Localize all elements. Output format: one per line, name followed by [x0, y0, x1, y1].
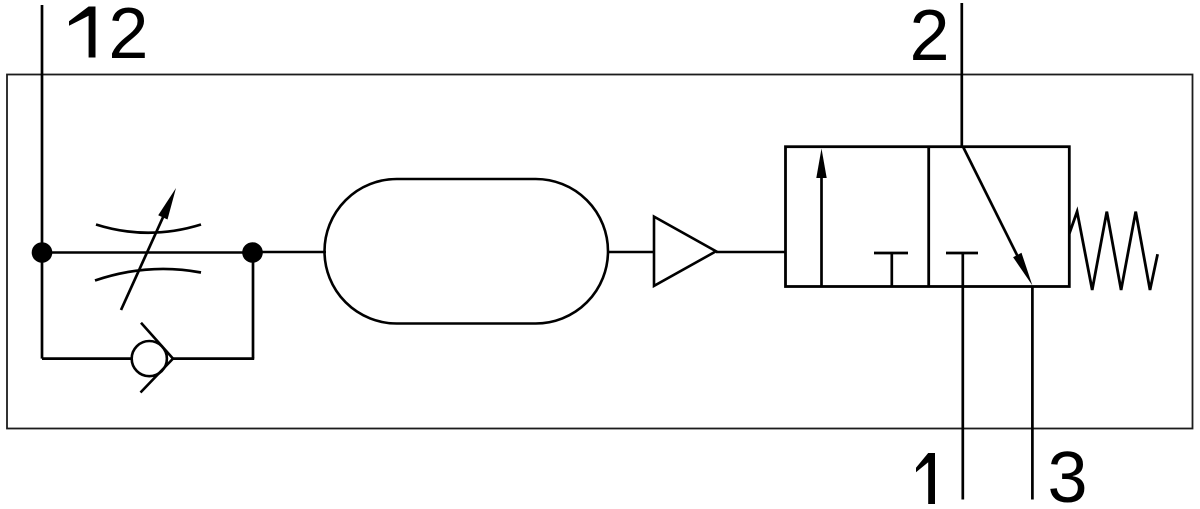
bypass right leg wire — [252, 253, 255, 359]
flow control valve (adjustable throttle) upper arc — [96, 225, 201, 233]
valve right cell diagonal flow arrow shaft — [963, 148, 1020, 262]
flow control valve adjustment arrow shaft — [121, 215, 164, 310]
amplifier nozzle U1 — [654, 217, 716, 286]
bypass bottom right wire — [172, 357, 254, 360]
port 2 line — [960, 3, 963, 147]
valve left cell blocked port T — [874, 253, 908, 287]
port 1 line — [961, 253, 964, 500]
wire node B to reservoir — [253, 251, 326, 254]
wire reservoir to amplifier — [608, 251, 655, 254]
svg-text:2: 2 — [108, 0, 148, 74]
valve body (3/2 way valve) — [786, 147, 1070, 287]
label 1 — [916, 453, 935, 504]
valve left cell flow arrow shaft — [820, 172, 823, 287]
reservoir (air accumulator) — [325, 179, 609, 324]
wire amplifier to valve — [716, 251, 786, 254]
node A junction dot — [32, 242, 53, 263]
svg-text:3: 3 — [1048, 438, 1088, 509]
return spring — [1069, 212, 1157, 290]
valve position divider — [927, 147, 930, 287]
valve right cell blocked port T bar — [946, 252, 978, 255]
check valve ball — [132, 341, 167, 376]
svg-text:2: 2 — [910, 0, 950, 76]
enclosure border — [7, 75, 1193, 429]
port 3 line — [1031, 286, 1034, 500]
node B junction dot — [242, 242, 263, 263]
bypass bottom left wire — [42, 357, 133, 360]
label 12 digit 1 — [69, 7, 96, 58]
check valve seat — [141, 323, 174, 393]
flow control valve adjustment arrowhead — [158, 188, 176, 220]
port 12 pilot line — [41, 5, 44, 253]
valve right cell diagonal flow arrowhead — [1013, 253, 1032, 286]
wire node A to node B — [42, 251, 253, 254]
bypass left leg wire — [41, 253, 44, 359]
valve left cell flow arrowhead — [816, 149, 826, 179]
flow control valve lower arc — [95, 269, 201, 281]
